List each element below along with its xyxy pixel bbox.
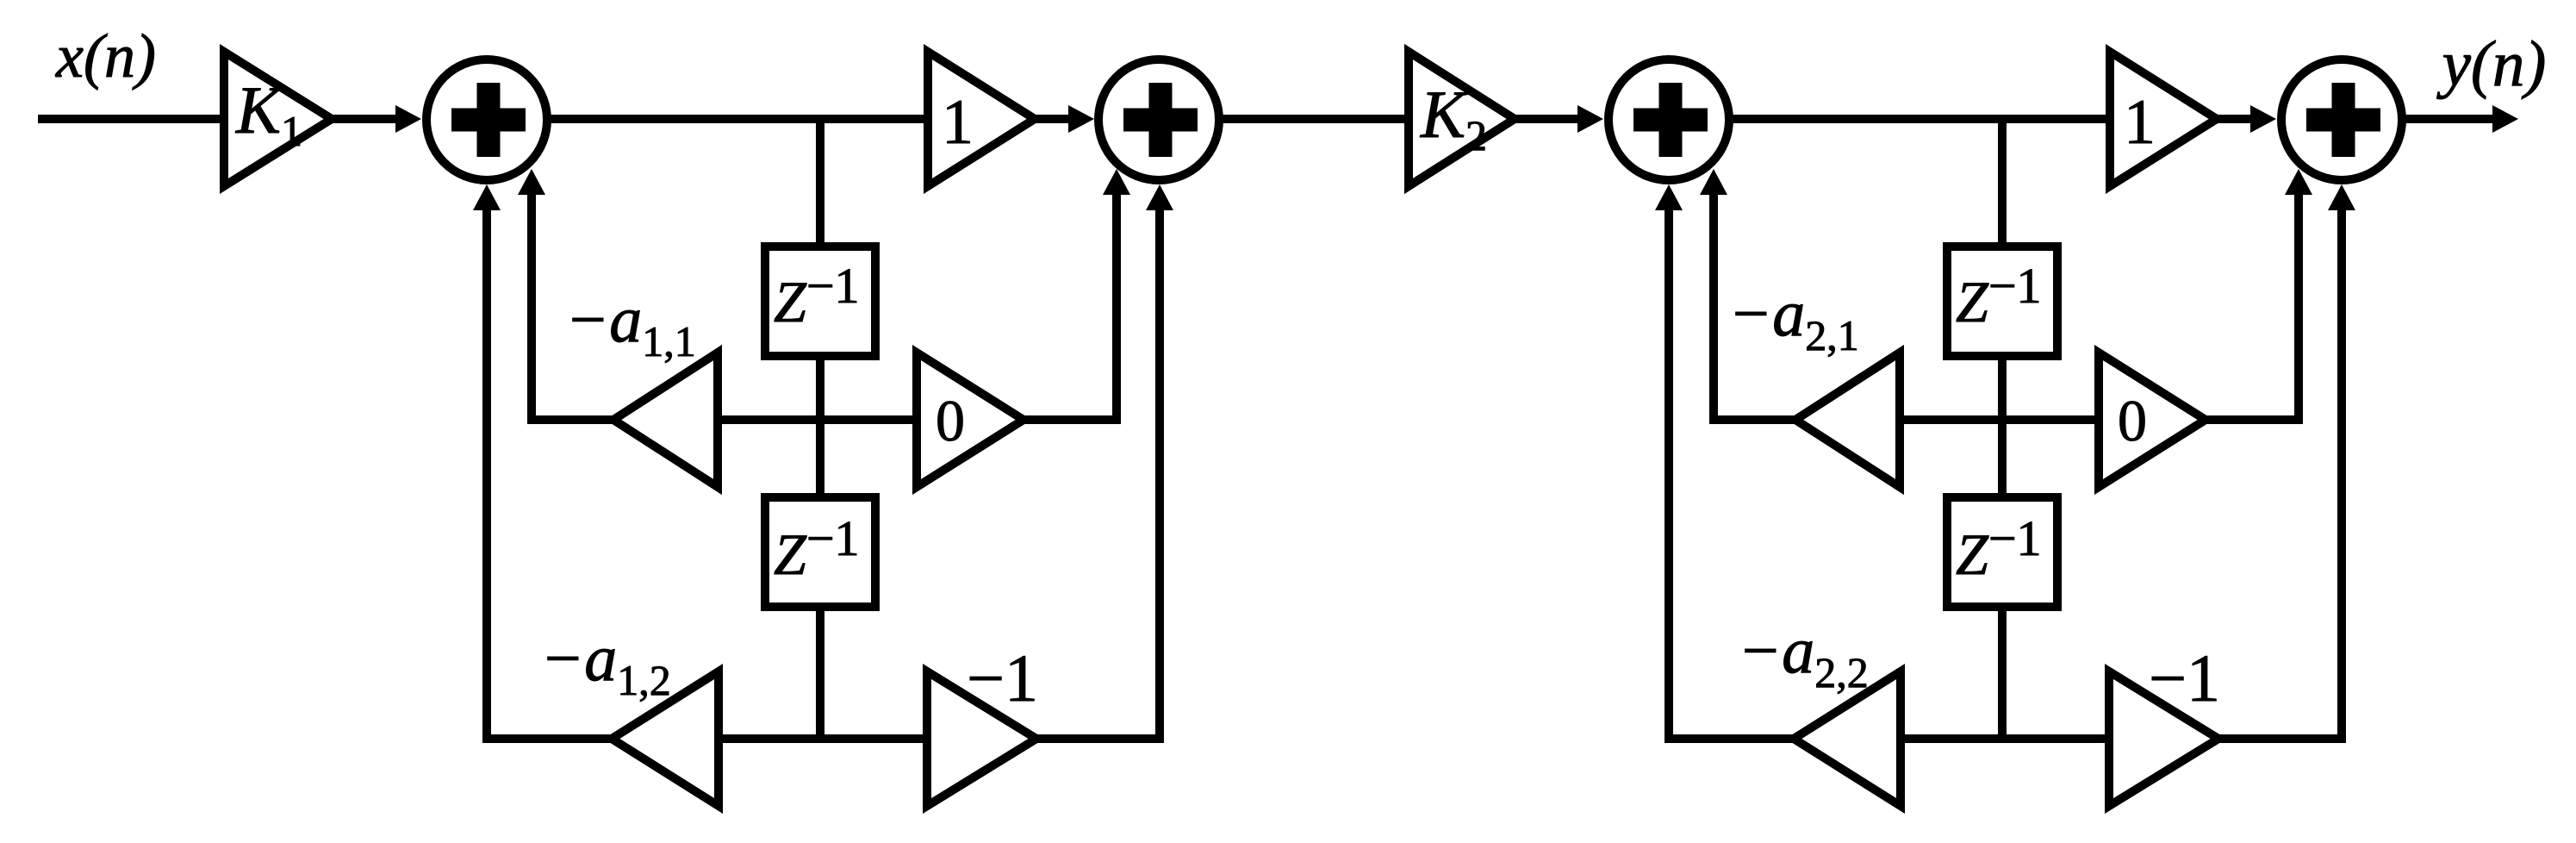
wire 1 to S2 <box>1035 115 1072 123</box>
wire mid feedback left with corner up to S1 <box>532 183 613 420</box>
delay Z2 <box>765 497 875 607</box>
arrowhead output <box>2492 105 2518 133</box>
wire Z3 to Z4 through mid node <box>1998 353 2007 500</box>
arrowhead into S3 <box>1577 105 1603 133</box>
svg-text:−1: −1 <box>967 640 1038 715</box>
svg-text:1: 1 <box>2124 87 2156 158</box>
svg-text:0: 0 <box>936 388 965 453</box>
delay Z3 <box>1947 247 2057 356</box>
summing junction S4 <box>2281 59 2402 180</box>
wire bottom node to amplifier -1 <box>715 734 930 743</box>
delay Z1 <box>765 247 875 356</box>
wire K2 to summer S3 <box>1515 115 1581 123</box>
wire S2 to K2 <box>1223 115 1410 123</box>
arrowhead into S4 <box>2250 105 2276 133</box>
arrowhead into S2 bottom left <box>1103 169 1130 195</box>
svg-text:−1: −1 <box>2149 640 2220 715</box>
amplifier -a2,2 <box>1794 671 1901 806</box>
svg-text:1: 1 <box>942 87 974 158</box>
svg-text:y(n): y(n) <box>2436 28 2547 100</box>
summing junction S3 <box>1608 59 1729 180</box>
wire 1 to S4 <box>2217 115 2254 123</box>
svg-text:K2: K2 <box>1420 77 1487 159</box>
wire bottom feedback left with corner up to S1 <box>487 198 612 739</box>
wire -1 output up to S2 <box>1036 198 1160 739</box>
svg-text:K1: K1 <box>235 72 302 155</box>
wire mid node to amplifier 0 <box>1896 415 2102 424</box>
amplifier K2 <box>1409 52 1515 186</box>
arrowhead into S3 bottom <box>1655 184 1683 210</box>
arrowhead into S1 bottom <box>473 184 501 210</box>
amplifier -a1,1 <box>613 353 718 487</box>
wire -1 output up to S4 <box>2218 198 2342 739</box>
amplifier 0 <box>917 353 1024 487</box>
wire S1 to amplifier 1 with branch node <box>551 115 930 123</box>
arrowhead into S2 bottom <box>1146 184 1173 210</box>
svg-text:x(n): x(n) <box>55 22 156 91</box>
svg-text:−a2,1: −a2,1 <box>1728 278 1859 359</box>
node y(n) output label <box>2436 28 2547 100</box>
wire Z4 down to bottom node <box>1998 603 2007 742</box>
wire branch down to Z1 <box>816 119 824 247</box>
arrowhead into S4 bottom <box>2328 184 2355 210</box>
wire 0 output up to S2 <box>1024 183 1117 420</box>
amplifier -a1,2 <box>612 671 719 806</box>
wire S3 to amplifier 1 with branch node <box>1733 115 2112 123</box>
arrowhead into S2 <box>1068 105 1094 133</box>
wire output y(n) <box>2405 115 2496 123</box>
amplifier K1 <box>224 52 332 186</box>
amplifier 1 <box>928 52 1035 186</box>
wire 0 output up to S4 <box>2206 183 2299 420</box>
amplifier 1 (section 2) <box>2110 52 2217 186</box>
amplifier -a2,1 <box>1795 353 1900 487</box>
node x(n) input label <box>55 22 156 91</box>
wire bottom node to amplifier -1 <box>1897 734 2112 743</box>
wire mid node to amplifier 0 <box>714 415 920 424</box>
svg-text:−a1,1: −a1,1 <box>565 284 696 365</box>
amplifier 0 (section 2) <box>2099 353 2206 487</box>
arrowhead into S4 bottom left <box>2285 169 2312 195</box>
svg-text:−a1,2: −a1,2 <box>540 622 671 704</box>
arrowhead into S1 <box>395 105 421 133</box>
wire K1 to summer S1 <box>332 115 399 123</box>
amplifier -1 (section 2) <box>2109 671 2218 806</box>
summing junction S1 <box>426 59 547 180</box>
summing junction S2 <box>1098 59 1219 180</box>
wire Z2 down to bottom node <box>816 603 824 742</box>
arrowhead into S3 bottom right <box>1700 169 1727 195</box>
delay Z4 <box>1947 497 2057 607</box>
wire bottom feedback left with corner up to S3 <box>1669 198 1794 739</box>
svg-text:0: 0 <box>2118 388 2147 453</box>
svg-text:−a2,2: −a2,2 <box>1738 615 1869 696</box>
amplifier -1 <box>927 671 1036 806</box>
wire Z1 to Z2 through mid node <box>816 353 824 500</box>
wire branch down to Z3 <box>1998 119 2007 247</box>
wire input x(n) to K1 <box>38 115 226 123</box>
arrowhead into S1 bottom right <box>518 169 545 195</box>
wire mid feedback left with corner up to S3 <box>1714 183 1795 420</box>
